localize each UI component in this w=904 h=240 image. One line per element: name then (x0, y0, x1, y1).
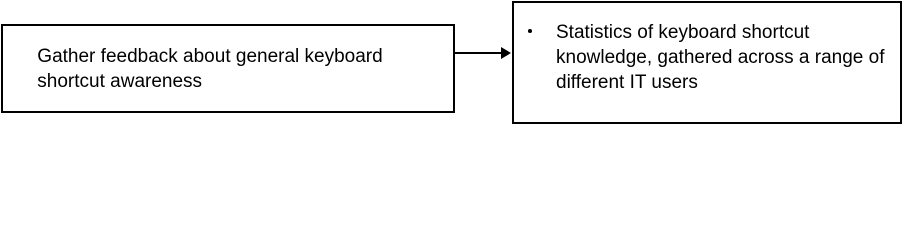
left process box (1, 24, 455, 113)
arrow shaft (453, 52, 502, 54)
right output box (512, 1, 903, 125)
arrow head (501, 47, 511, 59)
bullet point (528, 29, 532, 33)
left box label (37, 44, 382, 94)
right box label (556, 20, 885, 95)
